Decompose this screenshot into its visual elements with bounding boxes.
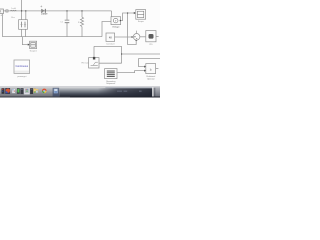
taskbar icon 9 chrome	[42, 89, 47, 94]
wire block right side	[99, 62, 121, 64]
scope2 U2	[30, 41, 37, 48]
repeating sequence R2	[105, 69, 117, 79]
taskbar icon 2 firefox	[5, 88, 10, 94]
wire gate vertical	[93, 46, 95, 57]
constant block K1	[106, 33, 115, 41]
wire top rail bend into voltage plus	[111, 11, 113, 17]
wire vertical from top edge to bridge	[21, 0, 23, 20]
taskbar bottom edge	[0, 97, 70, 98]
node junction dots	[21, 10, 128, 54]
wire source down	[1, 14, 3, 37]
sum top tick	[136, 31, 138, 34]
wire bus y58 to right edge	[139, 57, 160, 59]
svg-text:Scope1: Scope1	[30, 51, 38, 53]
svg-text:Voltage: Voltage	[112, 25, 120, 28]
taskbar active window title	[117, 90, 142, 93]
PID controller U5	[146, 31, 156, 42]
wire constant to sum	[115, 36, 133, 38]
taskbar icon 3 light window	[12, 89, 15, 94]
bottom white strip	[0, 98, 160, 121]
sum block S1	[133, 34, 140, 41]
sum arrow left	[132, 36, 134, 38]
bridge/switch block Q1	[19, 20, 28, 30]
svg-text:Continuous: Continuous	[15, 65, 28, 68]
wire repeating sequence output	[117, 71, 145, 73]
wire feedback down	[128, 13, 137, 45]
wire y58 down to relational operator	[139, 58, 145, 66]
svg-text:1mH: 1mH	[11, 8, 16, 10]
powergui block	[14, 60, 30, 73]
wire capacitor branch	[66, 11, 68, 37]
load resistor R1	[80, 17, 83, 26]
diode D1	[41, 9, 45, 13]
taskbar icon 1 dark	[2, 88, 5, 94]
wire rail to bridge right pin	[25, 11, 27, 20]
svg-text:Diode: Diode	[41, 13, 48, 16]
taskbar body right (active window darkening)	[98, 88, 152, 96]
svg-text:Constant: Constant	[106, 42, 115, 45]
inductor L1	[10, 9, 16, 12]
relational operator arrows	[144, 66, 146, 68]
wire PID output stub	[156, 36, 159, 38]
taskbar icon 7 dark	[30, 88, 33, 94]
scope1 input arrow	[134, 12, 136, 14]
wire relational operator output stub	[156, 68, 159, 70]
wire voltage output to scope	[121, 13, 135, 21]
sum arrow bottom	[135, 39, 137, 41]
svg-text:powergui: powergui	[17, 75, 26, 78]
taskbar top highlight	[0, 86, 160, 87]
scope1 U4	[136, 10, 146, 20]
taskbar icon 8 folder	[34, 89, 36, 90]
svg-text:Sequence: Sequence	[106, 83, 116, 85]
canvas background	[0, 0, 160, 87]
wire load resistor branch	[81, 11, 83, 37]
wire top rail	[3, 10, 111, 12]
source V1	[0, 9, 3, 14]
voltage measurement U3	[111, 17, 121, 25]
svg-text:Mos: Mos	[11, 17, 15, 19]
taskbar icon 10 blue pressed	[53, 88, 60, 97]
svg-text:≥: ≥	[150, 67, 152, 71]
wire branch to scope2	[22, 37, 28, 45]
wire bridge bottom pins	[22, 29, 26, 36]
taskbar body left (icon area)	[0, 87, 59, 96]
current measurement I1	[6, 10, 8, 12]
wire bottom rail up to voltage minus	[102, 22, 111, 37]
taskbar icon 5 dark	[20, 88, 23, 94]
wire gate loop top	[94, 45, 122, 47]
wire vertical x121	[121, 46, 123, 63]
svg-text:PID Con: PID Con	[81, 63, 88, 65]
taskbar body middle (glassy)	[59, 87, 152, 96]
PWM/mosfet block Q2	[89, 58, 99, 68]
svg-text:Operator: Operator	[147, 77, 155, 80]
svg-text:Scope: Scope	[138, 21, 145, 23]
taskbar icon 4 green	[17, 88, 20, 94]
taskbar tray	[154, 87, 161, 96]
taskbar icon 6 pressed light window	[24, 88, 30, 95]
scope2 input arrow	[28, 44, 30, 46]
relational operator U6	[146, 64, 156, 74]
wire bus y54 to right edge	[122, 53, 160, 55]
wire bottom rail	[2, 36, 102, 38]
capacitor C1	[65, 20, 70, 23]
wire sum to PID	[140, 36, 145, 38]
